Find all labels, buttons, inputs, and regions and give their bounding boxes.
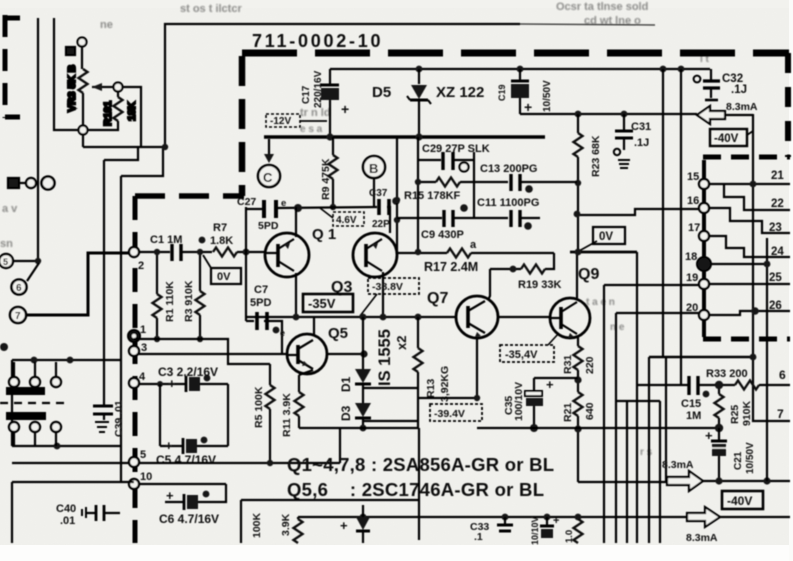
node pad 2 xyxy=(129,247,144,272)
node pad 3 xyxy=(129,342,147,356)
node C circle xyxy=(258,139,280,187)
junction xyxy=(416,66,423,73)
svg-text:17: 17 xyxy=(688,222,700,234)
resistor R11 3.9K xyxy=(281,375,304,437)
junction xyxy=(715,477,722,484)
svg-text:sn: sn xyxy=(0,238,13,250)
junction xyxy=(621,111,628,118)
svg-text:7: 7 xyxy=(15,311,21,322)
label 0V box mid xyxy=(593,227,625,244)
svg-text:5: 5 xyxy=(3,257,8,267)
terminal 20 xyxy=(686,302,709,320)
svg-text:Q7: Q7 xyxy=(427,290,448,307)
capacitor C11 xyxy=(474,197,540,230)
svg-text:20: 20 xyxy=(686,302,698,314)
svg-text:220: 220 xyxy=(584,356,596,374)
wire from 7 to pad 2 xyxy=(26,253,129,315)
svg-text:640: 640 xyxy=(584,402,596,420)
svg-text:6: 6 xyxy=(779,368,786,382)
svg-text:XZ 122: XZ 122 xyxy=(436,84,484,101)
svg-text:Q 1: Q 1 xyxy=(312,226,336,243)
svg-text:0V: 0V xyxy=(599,231,613,243)
svg-text:n e: n e xyxy=(610,322,625,333)
junction xyxy=(763,477,770,484)
svg-text:C9 430P: C9 430P xyxy=(421,229,464,241)
svg-text:R31: R31 xyxy=(562,355,574,374)
label -35.4V dashed xyxy=(500,333,559,362)
wire block col aux xyxy=(396,137,398,253)
resistor R5 100K xyxy=(253,364,275,466)
svg-text:-40V: -40V xyxy=(727,494,752,508)
junction xyxy=(326,133,333,140)
svg-text:25: 25 xyxy=(769,272,782,284)
label -12V dashed box xyxy=(266,114,327,127)
svg-text:C17: C17 xyxy=(301,85,312,104)
svg-text:22: 22 xyxy=(771,198,784,210)
node junction xyxy=(162,144,168,150)
capacitor C7 xyxy=(246,284,285,353)
svg-text:st os t ilctcr: st os t ilctcr xyxy=(180,3,242,15)
resistor R1 110K xyxy=(153,249,177,342)
node B circle xyxy=(363,156,385,207)
junction xyxy=(415,133,422,140)
svg-text:4.6V: 4.6V xyxy=(336,215,357,226)
wire node3 to Q5 base xyxy=(139,353,288,355)
svg-text:r s: r s xyxy=(640,447,653,458)
svg-text:18K: 18K xyxy=(126,101,138,121)
wire filter block right column xyxy=(473,152,475,219)
svg-text:100K: 100K xyxy=(251,512,263,538)
resistor R3 910K xyxy=(183,249,205,342)
wire C27/C7 column xyxy=(245,207,247,321)
junction xyxy=(517,66,524,73)
capacitor C19 xyxy=(497,69,553,115)
svg-text:R1 110K: R1 110K xyxy=(164,281,176,322)
wire node5 row xyxy=(12,462,129,464)
label -35V box xyxy=(303,294,353,312)
wire from top box to VR3 net xyxy=(83,146,165,148)
junction xyxy=(750,181,757,188)
wire input row xyxy=(139,251,170,253)
svg-text:C39 .01: C39 .01 xyxy=(113,400,125,437)
svg-text:ne: ne xyxy=(100,19,113,31)
node pad 10 xyxy=(129,471,152,489)
capacitor C40 xyxy=(56,503,120,527)
svg-text:+: + xyxy=(166,488,174,503)
capacitor C29 xyxy=(418,143,490,172)
svg-text:R17 2.4M: R17 2.4M xyxy=(424,260,478,274)
current arrow right 2 xyxy=(686,507,720,544)
wire node1 row xyxy=(134,339,270,364)
svg-text:+: + xyxy=(705,428,713,443)
wire top solid border xyxy=(165,24,520,147)
wire row 19 xyxy=(604,284,699,286)
wire row 480 right xyxy=(703,480,790,482)
resistor R33 200 xyxy=(706,368,790,390)
svg-text:C37: C37 xyxy=(369,188,388,199)
svg-text:e: e xyxy=(280,328,285,338)
svg-text:e: e xyxy=(281,198,286,209)
junction xyxy=(678,66,685,73)
dashed border main block left xyxy=(239,56,246,196)
svg-text:23: 23 xyxy=(769,222,782,234)
svg-text:-39.4V: -39.4V xyxy=(434,408,465,420)
capacitor C31 xyxy=(614,114,651,168)
wire right vertical xyxy=(766,238,768,481)
svg-text:5PD: 5PD xyxy=(250,297,271,309)
svg-text:10/10V: 10/10V xyxy=(530,516,540,545)
wire 18 to 24 xyxy=(711,263,767,265)
svg-text:1.0: 1.0 xyxy=(564,530,575,543)
label -39.4V dashed xyxy=(430,404,482,421)
wire row aux xyxy=(616,400,660,402)
svg-text:10: 10 xyxy=(140,471,152,483)
wire 17 row xyxy=(709,236,790,257)
wire left vertical 2 xyxy=(54,18,79,130)
svg-text:910K: 910K xyxy=(741,400,753,426)
resistor R9 475K xyxy=(320,137,338,210)
junction xyxy=(575,249,582,256)
svg-text:-38.8V: -38.8V xyxy=(372,281,403,293)
diode bottom xyxy=(340,505,370,543)
junction xyxy=(394,197,400,203)
capacitor C27 xyxy=(237,196,302,232)
svg-text:C40: C40 xyxy=(56,503,76,515)
svg-text:5PD: 5PD xyxy=(258,220,279,232)
svg-text:19: 19 xyxy=(686,272,698,284)
svg-text:R3 910K: R3 910K xyxy=(183,280,195,322)
terminal block dashed top xyxy=(703,155,790,160)
terminal 18 xyxy=(685,251,711,271)
capacitor C6 row xyxy=(159,484,226,526)
wire C3/C5 ladder xyxy=(160,384,228,446)
svg-text:t a e n: t a e n xyxy=(586,297,615,308)
transistor Q5 xyxy=(287,317,368,375)
svg-text:D5: D5 xyxy=(372,84,391,101)
label 0V box xyxy=(203,255,241,284)
terminal 5 xyxy=(0,254,41,268)
resistor R23 xyxy=(574,114,603,252)
stray junction dot xyxy=(0,343,8,351)
svg-text:18: 18 xyxy=(685,251,697,263)
wire row 428 left xyxy=(299,427,419,429)
resistor R101 xyxy=(87,83,141,148)
svg-text:R25: R25 xyxy=(729,405,741,424)
wire 16 row xyxy=(709,208,790,233)
capacitor C37 xyxy=(369,188,400,230)
wire filter block left column xyxy=(417,137,419,252)
terminal 16 xyxy=(687,195,709,213)
svg-text:26: 26 xyxy=(769,300,782,312)
wire row mid xyxy=(649,356,753,359)
wire right feed down xyxy=(753,114,790,421)
svg-text:.01: .01 xyxy=(60,515,75,527)
node pad 1 xyxy=(128,324,146,342)
diode D3 xyxy=(339,384,371,431)
svg-text:711-0002-10: 711-0002-10 xyxy=(252,31,382,51)
svg-text:22P: 22P xyxy=(372,219,390,230)
svg-text:D1: D1 xyxy=(339,376,353,392)
svg-text:5: 5 xyxy=(140,449,146,461)
resistor R13 3.92K xyxy=(414,317,452,428)
svg-text:1M: 1M xyxy=(686,410,701,422)
wire left vertical xyxy=(37,18,39,261)
wire 20 to 26 xyxy=(709,311,790,315)
capacitor C39 xyxy=(93,400,125,437)
svg-text:+: + xyxy=(165,438,173,453)
node pad 4 xyxy=(129,371,146,388)
svg-text:R9 475K: R9 475K xyxy=(320,158,332,200)
wire emitter top row xyxy=(247,207,390,233)
capacitor C9 xyxy=(397,204,474,241)
junction xyxy=(394,217,400,223)
wire 0V rail xyxy=(570,251,637,254)
svg-text:R101: R101 xyxy=(102,101,114,126)
junction xyxy=(293,314,300,321)
svg-text:21: 21 xyxy=(771,170,784,182)
junction xyxy=(360,314,367,321)
svg-text:R15 178KF: R15 178KF xyxy=(404,190,461,202)
svg-text:Q9: Q9 xyxy=(578,266,599,283)
wire node10 row xyxy=(139,483,226,485)
label -40V box xyxy=(710,129,753,146)
svg-text:-35,4V: -35,4V xyxy=(505,349,538,361)
svg-text:C15: C15 xyxy=(681,398,701,410)
wire step xyxy=(121,147,163,176)
wire row 480 xyxy=(578,481,667,483)
svg-text:D3: D3 xyxy=(339,405,353,421)
capacitor C35 xyxy=(503,377,578,432)
svg-text:0V: 0V xyxy=(217,271,231,283)
resistor 100K bottom xyxy=(251,512,263,538)
svg-text:+: + xyxy=(553,515,559,527)
transistor Q3 xyxy=(331,233,397,317)
svg-text:C7: C7 xyxy=(254,284,268,296)
svg-text:C27: C27 xyxy=(237,196,256,208)
resistor R25 910K xyxy=(715,389,754,432)
resistor R17 2.4M xyxy=(397,239,554,274)
transistor Q1 xyxy=(265,207,336,317)
svg-text:C: C xyxy=(263,170,273,185)
svg-text:C21: C21 xyxy=(733,451,744,470)
wire bottom long row xyxy=(298,516,687,518)
svg-text:-12V: -12V xyxy=(270,116,291,127)
dashed border left column xyxy=(133,196,138,543)
svg-text:x2: x2 xyxy=(394,336,409,350)
svg-text:.1J: .1J xyxy=(634,137,649,149)
svg-text:3: 3 xyxy=(141,342,147,354)
capacitor C21 xyxy=(705,428,756,480)
svg-text:R21: R21 xyxy=(562,403,574,422)
capacitor C17 xyxy=(301,69,349,137)
wire Q7 emitter row xyxy=(477,427,719,429)
svg-text:15: 15 xyxy=(687,171,699,183)
label IS1555 X2 xyxy=(376,329,409,386)
svg-text:R13: R13 xyxy=(425,379,437,398)
capacitor C13 xyxy=(480,163,577,193)
svg-text:1: 1 xyxy=(140,324,146,336)
connector pins left xyxy=(8,177,55,190)
svg-text:220/16V: 220/16V xyxy=(313,70,324,108)
label -40V box bottom xyxy=(722,491,763,509)
zener diode D5 XZ122 xyxy=(372,69,484,137)
svg-text:C3 2.2/16V: C3 2.2/16V xyxy=(158,365,218,379)
pin square top-left xyxy=(66,47,75,55)
svg-text:8.3mA: 8.3mA xyxy=(686,532,718,544)
junction xyxy=(380,314,387,321)
terminal 7 xyxy=(10,307,26,323)
svg-text:C5 4.7/16V: C5 4.7/16V xyxy=(156,453,216,467)
terminal 15 xyxy=(687,171,709,189)
junction xyxy=(764,261,771,268)
node pad 5 xyxy=(129,449,146,467)
svg-text:8.3mA: 8.3mA xyxy=(662,459,694,471)
svg-text:3,92KG: 3,92KG xyxy=(439,366,451,402)
svg-text:6: 6 xyxy=(16,283,22,294)
dashed border top-left corner xyxy=(3,15,20,118)
wire long vertical bus B xyxy=(103,160,105,406)
svg-text:C6 4.7/16V: C6 4.7/16V xyxy=(159,512,219,526)
svg-text:C11 1100PG: C11 1100PG xyxy=(477,197,539,209)
capacitor C32 xyxy=(694,69,747,100)
svg-text:10/50V: 10/50V xyxy=(745,442,756,474)
current arrow left 8.3mA xyxy=(697,101,758,124)
resistor bottom 1.0 xyxy=(564,514,583,543)
svg-text:+: + xyxy=(341,101,349,117)
terminal 19 xyxy=(686,272,709,289)
junction xyxy=(751,307,759,315)
bottom component box xyxy=(241,428,419,543)
terminal 6 xyxy=(12,263,40,295)
svg-text:-40V: -40V xyxy=(714,133,739,145)
resistor R31 220 xyxy=(562,346,596,392)
svg-text:R19 33K: R19 33K xyxy=(518,279,561,291)
potentiometer VR3 xyxy=(66,38,103,148)
dashed border main block top xyxy=(242,50,789,57)
svg-text:R11 3.9K: R11 3.9K xyxy=(281,393,293,437)
resistor R19 33K xyxy=(490,253,561,291)
svg-text:R7: R7 xyxy=(213,222,227,234)
transistor Q9 xyxy=(550,252,599,346)
svg-text:10/50V: 10/50V xyxy=(542,80,553,112)
svg-text:C31: C31 xyxy=(631,121,651,133)
svg-text:C29 27P SLK: C29 27P SLK xyxy=(422,143,490,155)
capacitor C1 xyxy=(150,234,212,261)
svg-text:a v: a v xyxy=(2,203,18,215)
svg-text:4: 4 xyxy=(139,371,146,383)
svg-text:+: + xyxy=(546,377,554,392)
svg-text:-35V: -35V xyxy=(308,296,336,311)
svg-text:C13 200PG: C13 200PG xyxy=(480,163,537,175)
resistor R7 xyxy=(210,222,264,257)
wire jog 22 xyxy=(724,184,790,210)
resistor R21 640 xyxy=(562,392,596,482)
junction xyxy=(415,314,422,321)
resistor R15 178KF xyxy=(404,178,508,203)
wire row 398 xyxy=(418,397,477,399)
svg-text:VR3 5K B: VR3 5K B xyxy=(66,64,78,112)
svg-text:a: a xyxy=(470,239,477,251)
svg-text:8.3mA: 8.3mA xyxy=(726,101,758,113)
dashed border step row xyxy=(135,193,244,199)
transistor Q7 xyxy=(427,269,498,401)
wire mid rail xyxy=(264,135,545,138)
svg-text:R33 200: R33 200 xyxy=(706,368,748,380)
capacitor C33 xyxy=(470,514,513,543)
capacitor C15 xyxy=(681,376,735,422)
wire vertical bundle xyxy=(603,285,605,543)
svg-text:C19: C19 xyxy=(497,84,507,101)
paper white margins xyxy=(0,545,793,561)
wire 15 to 21 xyxy=(709,183,790,185)
wire long vertical bus A xyxy=(120,176,122,482)
label 4.6V dashed xyxy=(320,208,364,226)
wire row 20 xyxy=(616,312,699,314)
capacitor C3 row xyxy=(139,365,228,392)
resistor 3.9K bottom xyxy=(280,513,303,543)
relay switch assembly xyxy=(0,357,121,450)
diode D1 xyxy=(339,317,371,392)
terminal block dashed bottom xyxy=(703,337,790,342)
current arrow right 8.3mA xyxy=(662,459,703,491)
wire bottom row right xyxy=(720,516,790,518)
svg-text:R23 68K: R23 68K xyxy=(590,135,602,177)
svg-text:e s a: e s a xyxy=(300,124,323,135)
svg-text:Ocsr ta tlnse sold: Ocsr ta tlnse sold xyxy=(556,1,648,13)
svg-text:Q5: Q5 xyxy=(328,325,348,342)
svg-text:3.9K: 3.9K xyxy=(280,513,292,536)
svg-text:24: 24 xyxy=(771,246,784,258)
svg-text:100/10V: 100/10V xyxy=(513,382,525,421)
capacitor bottom mid xyxy=(530,514,559,545)
wire power rail top xyxy=(330,68,710,70)
svg-text:B: B xyxy=(369,161,378,176)
bottom-left box xyxy=(12,482,134,543)
svg-text:C1 1M: C1 1M xyxy=(150,234,182,246)
svg-text:.1: .1 xyxy=(474,531,483,543)
labels 21-26 xyxy=(769,170,784,312)
svg-text:2: 2 xyxy=(138,260,144,272)
wire C15 row xyxy=(637,384,688,386)
wire main emitter rail xyxy=(246,316,550,318)
svg-text:7: 7 xyxy=(777,407,784,421)
svg-text:+: + xyxy=(524,99,532,115)
svg-text:Q5,6 : 2SC1746A-GR or BL: Q5,6 : 2SC1746A-GR or BL xyxy=(287,479,544,500)
junction xyxy=(575,111,582,118)
bottom type list text xyxy=(287,454,554,500)
svg-text:Q1~4,7,8 : 2SA856A-GR or BL: Q1~4,7,8 : 2SA856A-GR or BL xyxy=(287,454,554,475)
svg-text:.1J: .1J xyxy=(731,84,747,96)
junction xyxy=(660,66,667,73)
terminal 17 xyxy=(688,222,709,241)
wire rail to arrow xyxy=(520,113,697,115)
svg-text:1.8K: 1.8K xyxy=(210,235,233,247)
label -38.8V dashed xyxy=(360,278,419,316)
capacitor C5 row xyxy=(156,437,228,467)
wire 19 to 25 xyxy=(709,283,790,285)
svg-text:+: + xyxy=(340,518,348,533)
terminal bus xyxy=(702,160,706,337)
svg-text:R5 100K: R5 100K xyxy=(253,386,265,428)
svg-text:16: 16 xyxy=(687,195,699,207)
svg-text:IS 1555: IS 1555 xyxy=(376,329,394,386)
